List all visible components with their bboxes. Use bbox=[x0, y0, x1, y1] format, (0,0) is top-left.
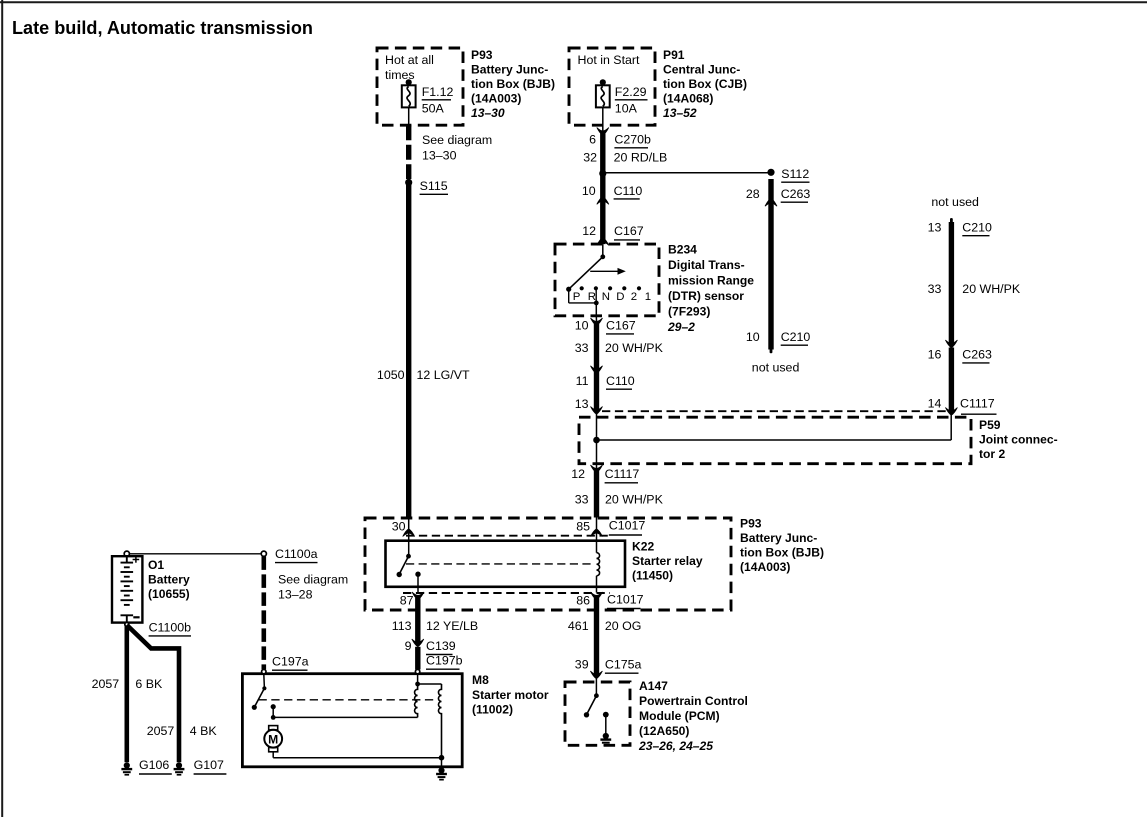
connector arrow C110 pin 11 bbox=[591, 366, 603, 374]
svg-text:33: 33 bbox=[928, 282, 942, 296]
svg-text:not used: not used bbox=[931, 195, 979, 209]
svg-text:B234: B234 bbox=[668, 243, 697, 257]
connector C1117 line bbox=[602, 410, 947, 412]
svg-text:F1.12: F1.12 bbox=[422, 85, 454, 99]
svg-text:C1017: C1017 bbox=[607, 593, 644, 607]
connector arrow C139 pin 9 bbox=[412, 639, 424, 647]
wire pin 30 into BJB bbox=[408, 518, 410, 557]
connector arrow pin 86 bbox=[591, 592, 603, 600]
svg-text:(11450): (11450) bbox=[632, 569, 673, 583]
DTR position contacts bbox=[580, 286, 584, 290]
svg-text:Battery Junc-: Battery Junc- bbox=[740, 531, 817, 545]
svg-text:6: 6 bbox=[589, 133, 596, 147]
wire 113 12 YE/LB bbox=[415, 598, 420, 643]
svg-text:C110: C110 bbox=[614, 184, 643, 198]
connector C197a terminal bbox=[262, 669, 266, 673]
battery - terminal bbox=[125, 622, 129, 626]
svg-text:10: 10 bbox=[582, 184, 596, 198]
wire battery+ feed (dashed) bbox=[261, 556, 266, 669]
wire 2057 6 BK bbox=[125, 626, 130, 762]
svg-text:9: 9 bbox=[405, 639, 412, 653]
svg-text:Hot in Start: Hot in Start bbox=[578, 53, 641, 67]
svg-text:50A: 50A bbox=[422, 102, 445, 116]
wire P93 to S115 (dashed) bbox=[406, 125, 411, 179]
wire 2057 4 BK bbox=[127, 625, 179, 762]
svg-text:20 RD/LB: 20 RD/LB bbox=[614, 151, 668, 165]
connector arrow C270b pin 6 bbox=[597, 128, 609, 136]
svg-text:tion Box (CJB): tion Box (CJB) bbox=[663, 77, 747, 91]
svg-text:C167: C167 bbox=[614, 224, 644, 238]
junction to S112 bbox=[599, 170, 606, 177]
svg-text:461: 461 bbox=[568, 619, 589, 633]
wire inside P59 bbox=[596, 411, 598, 468]
connector arrow pin 85 bbox=[591, 529, 603, 537]
component M8 Starter motor box bbox=[242, 674, 462, 767]
svg-text:N: N bbox=[602, 291, 610, 303]
svg-text:C1100b: C1100b bbox=[149, 621, 192, 635]
svg-text:A147: A147 bbox=[639, 679, 668, 693]
wire to splice S112 bbox=[603, 172, 771, 174]
wire into PCM driver bbox=[595, 678, 597, 696]
relay coil lead top bbox=[596, 541, 598, 553]
connector arrow pin 87 bbox=[412, 592, 424, 600]
svg-text:(DTR) sensor: (DTR) sensor bbox=[668, 289, 744, 303]
svg-text:39: 39 bbox=[575, 658, 589, 672]
fuse box P93 Battery Junction Box bbox=[377, 48, 463, 125]
component B234 DTR sensor box bbox=[555, 244, 659, 316]
svg-text:P: P bbox=[573, 291, 581, 303]
wire 33 20 WH/PK (right) bbox=[949, 222, 954, 345]
svg-text:S112: S112 bbox=[781, 167, 809, 181]
svg-text:14: 14 bbox=[928, 397, 942, 411]
wire into DTR switch bbox=[602, 244, 604, 257]
svg-text:G107: G107 bbox=[194, 758, 224, 772]
relay switch pivot bbox=[406, 554, 411, 559]
svg-text:85: 85 bbox=[576, 520, 590, 534]
relay K22 body bbox=[386, 541, 626, 587]
svg-text:33: 33 bbox=[575, 341, 589, 355]
svg-text:13: 13 bbox=[928, 221, 942, 235]
svg-text:F2.29: F2.29 bbox=[615, 85, 647, 99]
svg-text:not used: not used bbox=[752, 361, 800, 375]
svg-text:16: 16 bbox=[928, 348, 942, 362]
svg-text:Module (PCM): Module (PCM) bbox=[639, 709, 720, 723]
svg-text:86: 86 bbox=[576, 594, 590, 608]
wire stub to C270b bbox=[602, 127, 604, 132]
svg-text:Starter motor: Starter motor bbox=[472, 688, 549, 702]
relay switch arm bbox=[399, 556, 408, 574]
svg-text:1050: 1050 bbox=[377, 368, 405, 382]
winding junction bbox=[415, 682, 420, 687]
connector arrow C1117 pin 13 bbox=[591, 407, 603, 415]
connector arrow pin 30 bbox=[403, 529, 415, 537]
svg-text:(14A003): (14A003) bbox=[471, 92, 521, 106]
wire contact to motor junction bbox=[272, 707, 274, 718]
connector arrow C167 pin 10 bbox=[591, 318, 603, 326]
box P93 Battery Junction Box (relay) bbox=[365, 518, 731, 610]
solenoid switch arm bbox=[254, 688, 264, 707]
wire fuse to box edge bbox=[602, 107, 604, 126]
wire 1050 12 LG/VT bbox=[406, 182, 411, 517]
svg-text:Joint connec-: Joint connec- bbox=[979, 433, 1058, 447]
svg-text:P93: P93 bbox=[740, 517, 762, 531]
svg-text:See diagram: See diagram bbox=[278, 573, 348, 587]
svg-text:10A: 10A bbox=[615, 102, 638, 116]
connector arrow C1117 pin 14 bbox=[945, 408, 957, 416]
svg-text:tion Box (BJB): tion Box (BJB) bbox=[740, 546, 824, 560]
DTR switch pivot bbox=[600, 254, 605, 259]
svg-text:(14A068): (14A068) bbox=[663, 92, 713, 106]
wire P59 to pin 14 bbox=[950, 414, 952, 441]
battery plates bbox=[121, 556, 140, 622]
svg-text:P91: P91 bbox=[663, 48, 685, 62]
svg-text:tor 2: tor 2 bbox=[979, 447, 1005, 461]
svg-text:32: 32 bbox=[583, 151, 597, 165]
wire start nub C210 pin 13 bbox=[950, 218, 953, 223]
wire solenoid switch lead bbox=[263, 674, 266, 689]
svg-text:C139: C139 bbox=[426, 639, 456, 653]
svg-text:Battery Junc-: Battery Junc- bbox=[471, 63, 548, 77]
svg-text:C1100a: C1100a bbox=[275, 547, 318, 561]
svg-text:C175a: C175a bbox=[605, 658, 642, 672]
connector box P59 Joint connector 2 bbox=[579, 417, 971, 464]
fuse F2.29 10A bbox=[596, 79, 610, 107]
solenoid switch arm tip bbox=[252, 705, 257, 710]
svg-text:See diagram: See diagram bbox=[422, 133, 492, 147]
svg-text:12: 12 bbox=[582, 224, 596, 238]
wire C263 to C1117 pin 14 bbox=[949, 348, 954, 412]
svg-text:12 YE/LB: 12 YE/LB bbox=[426, 619, 478, 633]
wire 33 20 WH/PK (to relay) bbox=[594, 471, 599, 518]
svg-text:87: 87 bbox=[400, 594, 414, 608]
relay contact 87 bbox=[415, 572, 420, 577]
connector C1017 line bottom bbox=[403, 592, 610, 594]
svg-text:13–30: 13–30 bbox=[471, 106, 505, 120]
ground junction bbox=[439, 755, 445, 761]
battery O1 body bbox=[112, 556, 142, 622]
svg-text:6 BK: 6 BK bbox=[135, 677, 163, 691]
svg-text:20 WH/PK: 20 WH/PK bbox=[605, 341, 664, 355]
svg-text:M: M bbox=[268, 732, 278, 746]
svg-text:(12A650): (12A650) bbox=[639, 724, 689, 738]
connector arrow C263 pin 28 bbox=[765, 199, 777, 207]
wire 461 20 OG bbox=[594, 598, 599, 675]
svg-text:13–30: 13–30 bbox=[422, 149, 457, 163]
svg-text:C1117: C1117 bbox=[605, 467, 640, 481]
wire junction to pull-in winding bbox=[273, 716, 417, 718]
wire 32 20 RD/LB bbox=[600, 133, 605, 244]
svg-text:C210: C210 bbox=[962, 221, 992, 235]
connector arrow C1117 pin 12 bbox=[591, 465, 603, 473]
wire DTR common bbox=[568, 289, 570, 303]
wire PCM ground lead bbox=[605, 715, 607, 733]
ground G106 bbox=[121, 762, 132, 775]
svg-text:Central Junc-: Central Junc- bbox=[663, 63, 740, 77]
svg-text:20 WH/PK: 20 WH/PK bbox=[962, 282, 1021, 296]
svg-text:20 OG: 20 OG bbox=[605, 619, 642, 633]
svg-text:Powertrain Control: Powertrain Control bbox=[639, 694, 748, 708]
svg-text:Battery: Battery bbox=[148, 573, 190, 587]
wire battery+ to C1100a bbox=[129, 553, 261, 555]
svg-text:11: 11 bbox=[576, 374, 589, 388]
svg-text:C167: C167 bbox=[606, 319, 636, 333]
relay coil K22 bbox=[597, 553, 600, 576]
wire C139 to starter bbox=[415, 647, 420, 670]
svg-text:13–28: 13–28 bbox=[278, 587, 313, 601]
svg-text:2: 2 bbox=[631, 291, 637, 303]
battery + terminal bbox=[124, 551, 129, 556]
svg-text:C1117: C1117 bbox=[960, 397, 995, 411]
svg-text:C110: C110 bbox=[606, 374, 635, 388]
wire DTR output bbox=[595, 303, 597, 316]
svg-text:2057: 2057 bbox=[147, 724, 175, 738]
wire C263 to C210 (not used) bbox=[768, 202, 773, 350]
wire fuse to box edge bbox=[408, 107, 410, 126]
svg-text:113: 113 bbox=[392, 619, 412, 633]
ground (starter case) bbox=[436, 767, 447, 780]
wire pin 85 into BJB bbox=[596, 518, 598, 541]
splice S115 bbox=[405, 179, 412, 186]
svg-text:C197a: C197a bbox=[272, 655, 309, 669]
wire stub below DTR bbox=[595, 316, 597, 321]
svg-text:M8: M8 bbox=[472, 673, 489, 687]
wire P59 jumper bbox=[597, 439, 952, 441]
pull-in winding bbox=[415, 684, 418, 717]
svg-text:D: D bbox=[616, 291, 624, 303]
relay linkage (dashed) bbox=[406, 563, 595, 565]
svg-text:10: 10 bbox=[575, 319, 589, 333]
svg-text:tion Box (BJB): tion Box (BJB) bbox=[471, 77, 555, 91]
solenoid switch pivot bbox=[262, 686, 266, 690]
connector arrow C167 bbox=[597, 238, 609, 246]
ground G107 bbox=[174, 762, 185, 775]
DTR motion arrow bbox=[590, 270, 618, 272]
svg-text:C270b: C270b bbox=[614, 133, 651, 147]
connector arrow C175a pin 39 bbox=[590, 671, 602, 679]
connector C1017 line top bbox=[406, 535, 608, 537]
wire from R contact bbox=[595, 290, 597, 303]
svg-text:Late build, Automatic transmis: Late build, Automatic transmission bbox=[12, 18, 313, 38]
svg-text:4 BK: 4 BK bbox=[190, 724, 218, 738]
wire 33 20 WH/PK (center) bbox=[594, 324, 599, 411]
svg-text:29–2: 29–2 bbox=[667, 320, 695, 334]
svg-text:K22: K22 bbox=[632, 540, 654, 554]
svg-text:(7F293): (7F293) bbox=[668, 305, 710, 319]
svg-text:C1017: C1017 bbox=[609, 519, 646, 533]
svg-text:30: 30 bbox=[392, 520, 406, 534]
splice S112 bbox=[767, 169, 774, 176]
DTR arm contact P bbox=[566, 287, 571, 292]
wire to case ground bbox=[441, 758, 443, 768]
motor M bbox=[264, 726, 282, 752]
PCM ground contact bbox=[603, 712, 609, 718]
page border top bbox=[0, 1, 1147, 3]
ground (PCM internal) bbox=[600, 733, 611, 746]
svg-text:C263: C263 bbox=[781, 187, 811, 201]
PCM switch pivot bbox=[594, 693, 599, 698]
svg-text:10: 10 bbox=[746, 330, 760, 344]
DTR output junction bbox=[594, 301, 599, 306]
hold-in winding bbox=[438, 684, 441, 758]
svg-text:12 LG/VT: 12 LG/VT bbox=[417, 368, 470, 382]
svg-text:C210: C210 bbox=[781, 330, 811, 344]
PCM switch arm tip bbox=[584, 712, 589, 717]
svg-text:(14A003): (14A003) bbox=[740, 560, 790, 574]
page border left bbox=[1, 0, 3, 817]
connector C197b terminal bbox=[415, 669, 419, 673]
wire end nub C210 bbox=[770, 349, 773, 353]
svg-text:(10655): (10655) bbox=[148, 587, 190, 601]
svg-text:13–52: 13–52 bbox=[663, 106, 697, 120]
solenoid contact bbox=[271, 704, 276, 709]
wire C197b lead bbox=[417, 674, 419, 684]
wire S112 to C263 bbox=[768, 179, 773, 202]
svg-text:C263: C263 bbox=[962, 348, 992, 362]
DTR switch arm bbox=[569, 257, 603, 289]
component A147 PCM box bbox=[565, 682, 630, 745]
connector arrow C110 bbox=[597, 197, 609, 205]
svg-text:Starter relay: Starter relay bbox=[632, 554, 703, 568]
relay coil lead bottom bbox=[596, 576, 598, 593]
svg-text:28: 28 bbox=[746, 187, 760, 201]
svg-text:23–26, 24–25: 23–26, 24–25 bbox=[638, 739, 713, 753]
svg-text:13: 13 bbox=[575, 397, 589, 411]
wire to hold-in winding bbox=[418, 683, 442, 685]
svg-text:mission Range: mission Range bbox=[668, 274, 754, 288]
svg-text:2057: 2057 bbox=[92, 677, 120, 691]
relay switch arm tip bbox=[397, 572, 402, 577]
svg-text:12: 12 bbox=[571, 467, 585, 481]
svg-text:P59: P59 bbox=[979, 418, 1001, 432]
svg-text:Digital Trans-: Digital Trans- bbox=[668, 258, 745, 272]
svg-text:Hot at all: Hot at all bbox=[385, 53, 434, 67]
svg-text:20 WH/PK: 20 WH/PK bbox=[605, 493, 664, 507]
PCM switch arm bbox=[587, 696, 597, 715]
connector arrow C263 pin 16 bbox=[945, 340, 957, 348]
wire relay contact to pin 87 bbox=[417, 574, 419, 592]
fuse box P91 Central Junction Box bbox=[569, 48, 655, 125]
wire ground rail bbox=[273, 757, 441, 759]
svg-text:O1: O1 bbox=[148, 558, 164, 572]
motor junction bbox=[271, 715, 276, 720]
svg-text:C197b: C197b bbox=[426, 654, 463, 668]
connector C1100a terminal bbox=[261, 551, 266, 556]
svg-text:33: 33 bbox=[575, 493, 589, 507]
svg-text:P93: P93 bbox=[471, 48, 493, 62]
starter linkage (dashed) bbox=[259, 699, 437, 701]
svg-text:1: 1 bbox=[645, 291, 651, 303]
junction inside P59 bbox=[593, 437, 600, 444]
svg-text:G106: G106 bbox=[139, 758, 169, 772]
fuse F1.12 50A bbox=[402, 79, 416, 107]
wire motor to ground rail bbox=[272, 752, 274, 758]
svg-text:(11002): (11002) bbox=[472, 703, 513, 717]
svg-text:R: R bbox=[588, 291, 596, 303]
svg-text:S115: S115 bbox=[420, 179, 448, 193]
